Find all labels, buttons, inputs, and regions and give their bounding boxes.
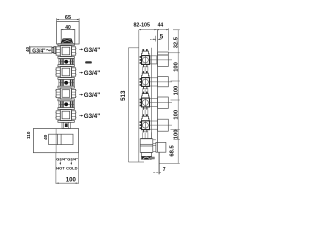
union nut D-box [62,122,70,128]
centerline dash [153,172,161,174]
station B [55,65,76,80]
pipes to rear body 3 [150,98,173,106]
station D [55,108,76,123]
squiggle arrow on pipe [46,50,50,51]
svg-text:68.5: 68.5 [170,145,176,157]
svg-text:COLD: COLD [66,165,77,170]
mixer side body [140,138,153,156]
svg-text:100: 100 [66,177,77,183]
rear body 3 [158,97,169,108]
svg-text:G3/4": G3/4" [84,70,100,77]
svg-text:513: 513 [120,90,127,101]
svg-text:40: 40 [25,46,30,52]
svg-text:100: 100 [173,110,179,120]
outlet labels G3/4 right [79,47,100,120]
svg-text:32.5: 32.5 [173,36,179,48]
body plane line [150,48,152,139]
svg-text:44: 44 [158,23,164,29]
valve body inner rect [61,30,75,45]
union nut B-C [59,79,74,86]
svg-text:G3/4": G3/4" [56,157,67,162]
svg-text:G3/4": G3/4" [84,47,100,54]
rear body 5 [156,142,166,152]
wall profile [128,30,144,162]
svg-text:G3/4": G3/4" [32,48,46,54]
hot/cold arrows [60,162,73,165]
outlet drop line [158,152,160,174]
svg-text:65: 65 [65,15,71,21]
bottom housing box [33,129,78,153]
dimension 100 bottom [56,153,79,184]
station A [55,44,76,59]
svg-text:100: 100 [173,62,179,72]
cartridge [61,38,73,43]
svg-text:G3/4": G3/4" [84,113,100,120]
inlet pipe G3/4 [29,46,55,54]
side station 3 [140,92,148,107]
svg-text:HOT: HOT [56,165,65,170]
rear body 2 [158,77,169,87]
station C [55,86,76,101]
manifold connector 1 [150,56,156,64]
svg-text:G3/4": G3/4" [84,92,100,99]
housing centerline [55,129,57,153]
housing inner block [49,134,73,144]
rear body 4 [158,119,169,131]
side station 4 [140,114,148,129]
svg-text:82-105: 82-105 [133,23,150,29]
mixer rear connector [153,140,156,152]
svg-text:100: 100 [173,86,179,96]
pipes to rear body 1 [150,56,173,64]
pipes to rear body 4 [150,121,173,129]
svg-text:G3/4": G3/4" [67,157,78,162]
union nut A-B [59,59,74,65]
side station 2 [140,71,148,86]
svg-text:110: 110 [26,131,31,139]
rear body 1 [158,52,169,67]
valve body outer rect [57,21,80,44]
svg-text:40: 40 [65,25,71,31]
dimension 65 [57,18,80,21]
side stations [140,49,172,67]
pipes to rear body 2 [150,78,173,86]
svg-text:7: 7 [163,167,166,173]
small out mark [85,61,92,63]
union nut C-D [59,101,74,108]
svg-text:100: 100 [173,130,179,140]
rear plate line [157,30,159,152]
tube between stations [143,67,152,139]
side station 1 [140,49,148,64]
right dimension chain ticks [159,30,180,164]
svg-text:40: 40 [43,134,49,140]
right dimension chain line [177,30,179,164]
